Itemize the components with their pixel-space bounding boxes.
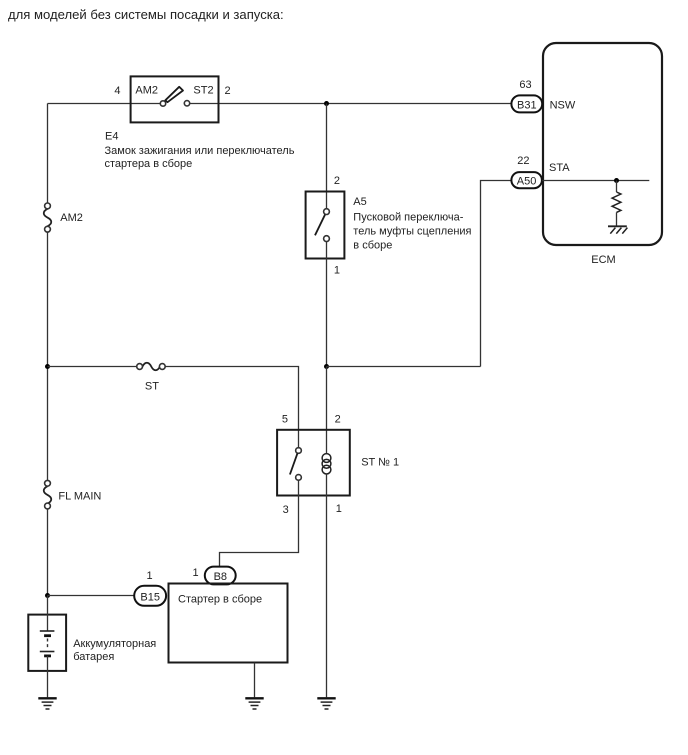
svg-text:B15: B15: [140, 592, 160, 604]
coil (relay ST No.1 winding): [322, 454, 331, 474]
wire (battery junction to B15 connector): [48, 595, 135, 597]
svg-text:1: 1: [334, 265, 340, 277]
wire (relay coil pin 1 down to ground): [326, 474, 328, 697]
svg-text:AM2: AM2: [135, 85, 158, 97]
wire (top bus from left vertical to E4 switch): [48, 103, 161, 105]
svg-text:ST: ST: [145, 381, 159, 393]
fuse FL MAIN: [44, 480, 102, 509]
svg-text:1: 1: [336, 503, 342, 515]
wire (junction to resistor): [616, 181, 618, 193]
wire (ECM internal STA line): [542, 180, 649, 182]
starter assembly box: [169, 584, 288, 663]
svg-text:2: 2: [335, 414, 341, 426]
wire (A5 pin 1 down to ST junction): [326, 242, 328, 367]
switch A5 clutch start: [306, 192, 345, 259]
wire (ST branch to fuse ST): [48, 366, 137, 368]
node (junction below A5): [324, 364, 329, 369]
svg-text:4: 4: [114, 85, 120, 97]
wire (junction right toward A50 drop): [327, 366, 481, 368]
wire (E4 output to junction): [190, 103, 327, 105]
svg-text:ST2: ST2: [193, 85, 213, 97]
connector B8: [205, 567, 236, 585]
relay ST No.1: [277, 430, 350, 496]
svg-text:ST № 1: ST № 1: [361, 457, 399, 469]
ground (relay coil): [317, 698, 335, 709]
node (ECM internal junction): [614, 178, 619, 183]
svg-text:E4: E4: [105, 131, 118, 143]
connector B15: [134, 586, 166, 606]
svg-text:для моделей без системы посадк: для моделей без системы посадки и запуск…: [8, 7, 284, 22]
wire (junction down to relay coil pin 2): [326, 367, 328, 454]
svg-text:A50: A50: [517, 176, 537, 188]
svg-text:A5: A5: [353, 196, 366, 208]
svg-text:2: 2: [225, 85, 231, 97]
wire (junction to ECM B31): [327, 103, 512, 105]
label E4 designator and name: [105, 131, 295, 171]
wire (fuse ST to relay pin 5, turns down): [165, 367, 298, 448]
svg-text:B8: B8: [214, 571, 227, 583]
label A5 designator and name: [353, 196, 471, 252]
svg-text:в сборе: в сборе: [353, 240, 392, 252]
svg-text:1: 1: [192, 567, 198, 579]
wire (left vertical, AM2 fuse to FL MAIN fuse): [47, 232, 49, 480]
wire (left vertical, FL MAIN to battery junction): [47, 509, 49, 596]
svg-text:B31: B31: [517, 100, 537, 112]
svg-text:63: 63: [519, 79, 531, 91]
svg-text:стартера в сборе: стартера в сборе: [105, 158, 193, 170]
node (ST branch junction on left vertical): [45, 364, 50, 369]
fuse ST: [137, 363, 166, 393]
svg-text:Аккумуляторная: Аккумуляторная: [73, 638, 156, 650]
svg-text:Пусковой переключа-: Пусковой переключа-: [353, 212, 463, 224]
connector A50: [511, 172, 542, 188]
svg-text:NSW: NSW: [550, 100, 576, 112]
svg-text:3: 3: [283, 504, 289, 516]
svg-text:2: 2: [334, 175, 340, 187]
svg-text:AM2: AM2: [60, 212, 83, 224]
ground (battery): [38, 698, 56, 709]
wire (relay pin 3 to starter B8): [220, 480, 299, 566]
svg-text:Стартер в сборе: Стартер в сборе: [178, 594, 262, 606]
wire (resistor to ECM ground): [616, 212, 618, 226]
battery: [28, 596, 66, 698]
switch E4 ignition: [131, 76, 219, 122]
svg-text:1: 1: [146, 570, 152, 582]
svg-text:STA: STA: [549, 162, 570, 174]
wire (top junction down to A5 pin 2): [326, 104, 328, 209]
svg-text:22: 22: [517, 155, 529, 167]
ground (ECM internal chassis ground): [608, 226, 627, 233]
svg-text:5: 5: [282, 414, 288, 426]
wire (left vertical, top wire to AM2 fuse): [47, 104, 49, 204]
wire (A50 drop: down from ECM A50): [481, 181, 512, 367]
connector B31: [511, 95, 542, 112]
svg-text:батарея: батарея: [73, 651, 114, 663]
node (junction on top bus): [324, 101, 329, 106]
svg-text:FL MAIN: FL MAIN: [58, 491, 101, 503]
svg-text:тель муфты сцепления: тель муфты сцепления: [353, 226, 471, 238]
svg-text:Замок зажигания или переключат: Замок зажигания или переключатель: [105, 145, 295, 157]
svg-text:ECM: ECM: [591, 254, 615, 266]
wire (starter box to ground): [254, 663, 256, 698]
fuse AM2: [44, 203, 83, 232]
resistor (ECM internal pull-down): [612, 192, 621, 212]
node (battery junction): [45, 593, 50, 598]
ECM box: [543, 43, 662, 266]
ground (starter): [245, 698, 263, 709]
label battery name: [73, 638, 156, 663]
